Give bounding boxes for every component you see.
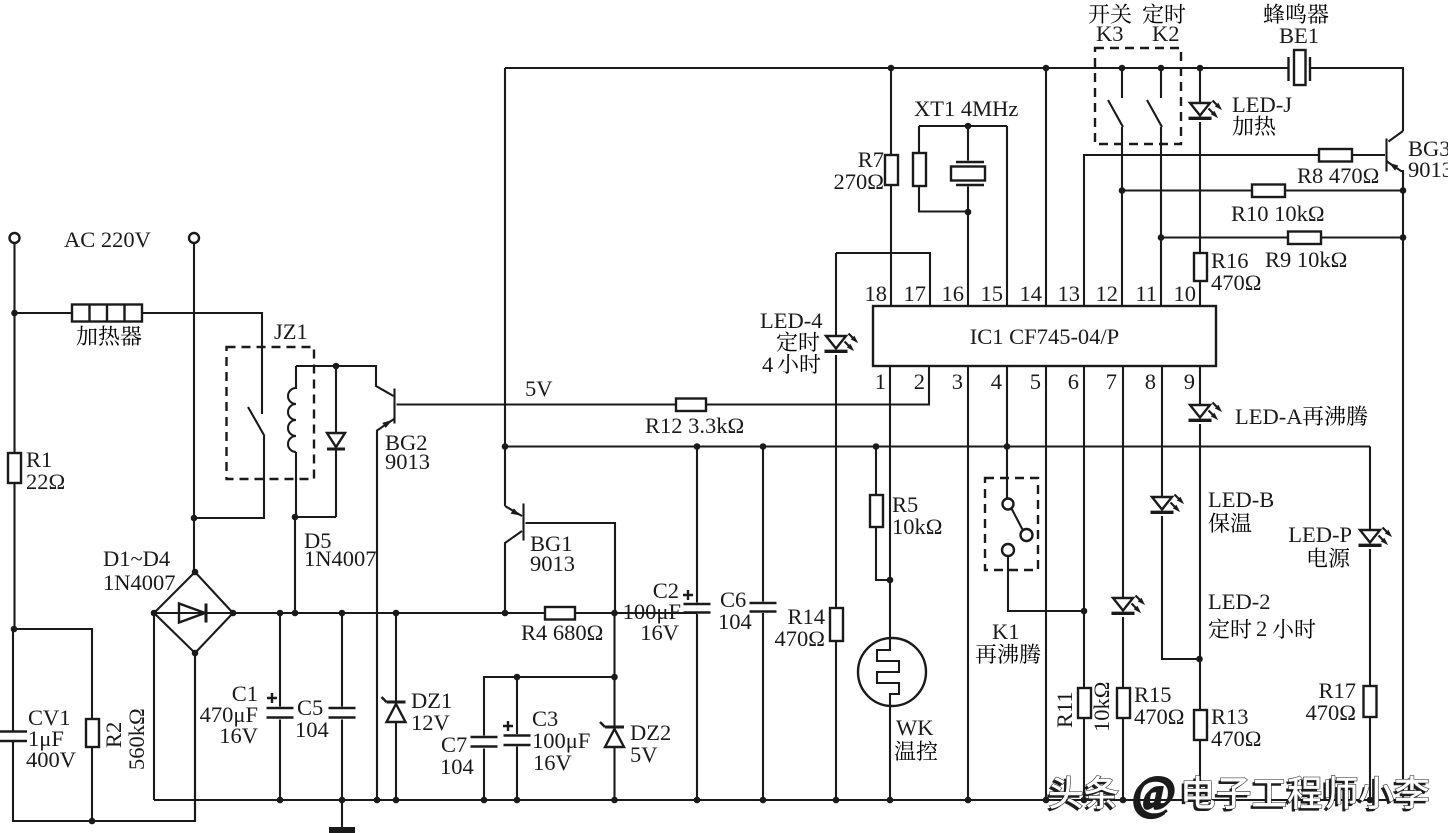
wire 5V feed vertical bbox=[504, 68, 506, 506]
svg-text:104: 104 bbox=[295, 717, 329, 742]
junction C3/C7 branch bbox=[611, 674, 618, 681]
wire AC1 down to R1 bbox=[13, 244, 15, 454]
svg-text:22Ω: 22Ω bbox=[26, 469, 65, 494]
wire R2 branch bbox=[14, 629, 92, 821]
svg-text:2: 2 bbox=[914, 369, 925, 394]
svg-text:8: 8 bbox=[1145, 369, 1156, 394]
junction ground 836 bbox=[833, 797, 840, 804]
capacitor C6 104 bbox=[762, 447, 764, 801]
wire top bus to LED-J bbox=[1199, 68, 1201, 306]
resistor R12 bbox=[676, 399, 706, 412]
svg-text:4: 4 bbox=[762, 352, 773, 377]
svg-text:K2: K2 bbox=[1152, 21, 1180, 46]
svg-text:LED-2: LED-2 bbox=[1208, 589, 1270, 614]
wire +V rail bbox=[233, 612, 697, 614]
junction heater tap bbox=[11, 310, 18, 317]
junction ground 484 bbox=[481, 797, 488, 804]
svg-text:R11: R11 bbox=[1052, 691, 1077, 728]
junction ground 377 bbox=[374, 797, 381, 804]
junction ground 968 bbox=[965, 797, 972, 804]
svg-text:470Ω: 470Ω bbox=[1134, 704, 1184, 729]
junction R10-BG3 emitter bbox=[1400, 187, 1407, 194]
switch K1 dashed outline bbox=[985, 478, 1038, 570]
junction R2 bottom bbox=[89, 818, 96, 825]
terminal AC input 2 bbox=[189, 233, 199, 243]
junction LED-J top bbox=[1197, 65, 1204, 72]
capacitor C1 470uF bbox=[279, 613, 281, 800]
svg-text:470Ω: 470Ω bbox=[1306, 700, 1356, 725]
relay JZ1 dashed outline bbox=[227, 347, 315, 479]
resistor R16 470R bbox=[1194, 253, 1207, 281]
wire IC pin8 down / LED-B bbox=[1162, 366, 1199, 659]
svg-text:9: 9 bbox=[1184, 369, 1195, 394]
wire bridge left to ground bus bbox=[153, 613, 155, 800]
svg-text:10: 10 bbox=[1174, 281, 1197, 306]
junction ground 614.5 bbox=[611, 797, 618, 804]
resistor R9 10k bbox=[1161, 236, 1403, 238]
junction BG1 base node bbox=[611, 610, 618, 617]
svg-text:16V: 16V bbox=[219, 723, 258, 748]
transistor BG1 bbox=[522, 504, 524, 541]
transistor BG3 bbox=[1385, 139, 1387, 172]
svg-text:13: 13 bbox=[1058, 281, 1081, 306]
watermark 头条@电子工程师小李 bbox=[1047, 778, 1116, 811]
svg-text:15: 15 bbox=[981, 281, 1004, 306]
junction bridge left bbox=[151, 610, 158, 617]
junction K2 top bbox=[1158, 65, 1165, 72]
switches K3 K2 dashed outline bbox=[1095, 48, 1181, 144]
junction ground 1123 bbox=[1120, 797, 1127, 804]
zener diode DZ2 5V bbox=[600, 722, 624, 747]
svg-text:7: 7 bbox=[1106, 369, 1117, 394]
capacitor C2 100uF bbox=[696, 447, 698, 801]
junction ground 280 bbox=[277, 797, 284, 804]
resistor R14 bbox=[835, 355, 837, 800]
crystal XT1 4MHz bbox=[919, 126, 1007, 306]
wire K1 bottom to pin6 node bbox=[1008, 556, 1084, 611]
wire top supply bus bbox=[505, 68, 1403, 131]
junction R9 tap bbox=[1158, 234, 1165, 241]
junction BG1 emitter / +V bbox=[502, 610, 509, 617]
junction K1-pin6 bbox=[1081, 608, 1088, 615]
svg-text:AC 220V: AC 220V bbox=[64, 227, 151, 252]
wire bridge bottom to AC return bbox=[194, 653, 196, 821]
wire C7 C3 branch bbox=[484, 677, 615, 800]
svg-text:R4 680Ω: R4 680Ω bbox=[521, 620, 603, 645]
junction R5-pin1 bbox=[887, 577, 894, 584]
resistor R17 bbox=[1364, 686, 1377, 717]
buzzer BE1 bbox=[1289, 57, 1311, 81]
wire coil top to BG2 collector bbox=[296, 366, 394, 396]
svg-text:11: 11 bbox=[1135, 281, 1157, 306]
wire IC pin9 down / LED-A / resistor R13 bbox=[1199, 366, 1201, 800]
thermostat WK bbox=[858, 638, 926, 706]
wire BG2 base / 5V node to R12 bbox=[397, 366, 930, 405]
junction coil-D5 top bbox=[333, 363, 340, 370]
junction coil-return bbox=[292, 610, 299, 617]
junction pin8-pin9 bbox=[1196, 656, 1203, 663]
junction crystal bottom bbox=[965, 209, 972, 216]
label 定时 K2 bbox=[1143, 4, 1186, 24]
wire IC pin7 down / LED-2 / resistor R15 bbox=[1122, 366, 1124, 800]
wire IC pin5 down bbox=[1045, 366, 1047, 800]
capacitor C7 104 bbox=[471, 737, 498, 747]
switch K3 / wire pin12 bbox=[1121, 68, 1123, 306]
junction ground 763 bbox=[760, 797, 767, 804]
wire pin17 to LED-4 bbox=[836, 253, 930, 306]
svg-text:9013: 9013 bbox=[530, 551, 575, 576]
junction C6 top bbox=[760, 443, 767, 450]
resistor R5 bbox=[876, 447, 890, 581]
junction ground 1084 bbox=[1081, 797, 1088, 804]
svg-text:R8 470Ω: R8 470Ω bbox=[1297, 163, 1379, 188]
junction C3 top bbox=[514, 674, 521, 681]
wire heater left lead bbox=[15, 312, 73, 314]
heater element 加热器 bbox=[72, 305, 142, 322]
diode D5 1N4007 bbox=[335, 366, 337, 517]
svg-text:9013: 9013 bbox=[1408, 157, 1448, 182]
wire 5V bus to LED-P bbox=[1369, 447, 1371, 801]
svg-text:2: 2 bbox=[1256, 616, 1267, 641]
svg-text:LED-B: LED-B bbox=[1208, 487, 1274, 512]
svg-text:10kΩ: 10kΩ bbox=[1089, 682, 1114, 732]
svg-text:LED-J: LED-J bbox=[1232, 92, 1292, 117]
svg-text:D1~D4: D1~D4 bbox=[103, 546, 170, 571]
resistor R10 10k bbox=[1122, 189, 1403, 191]
junction R7 top bbox=[888, 65, 895, 72]
svg-text:3: 3 bbox=[952, 369, 963, 394]
svg-text:R10 10kΩ: R10 10kΩ bbox=[1231, 201, 1325, 226]
svg-text:17: 17 bbox=[904, 281, 927, 306]
svg-text:5V: 5V bbox=[525, 376, 553, 401]
junction DZ1 top bbox=[393, 610, 400, 617]
junction ground 1046 bbox=[1043, 797, 1050, 804]
svg-text:400V: 400V bbox=[26, 747, 76, 772]
wire base node down bbox=[613, 613, 615, 800]
junction crystal top bbox=[965, 123, 972, 130]
terminal AC input 1 bbox=[10, 233, 20, 243]
LED-J bbox=[1189, 101, 1223, 119]
svg-text:10kΩ: 10kΩ bbox=[892, 514, 942, 539]
LED-4 bbox=[835, 253, 837, 336]
label 蜂鸣器 BE1 bbox=[1264, 3, 1329, 23]
svg-text:K3: K3 bbox=[1096, 21, 1124, 46]
svg-text:16V: 16V bbox=[533, 750, 572, 775]
svg-text:JZ1: JZ1 bbox=[274, 319, 308, 344]
svg-text:LED-A: LED-A bbox=[1235, 404, 1303, 429]
svg-text:104: 104 bbox=[440, 754, 474, 779]
junction pin14 top bbox=[1043, 65, 1050, 72]
transistor BG2 bbox=[393, 389, 395, 424]
junction bridge right bbox=[230, 610, 237, 617]
wire IC pin3 down bbox=[967, 366, 969, 800]
wire JZ1 switch to AC2 node bbox=[194, 436, 264, 518]
junction ground 1370 bbox=[1367, 797, 1374, 804]
junction 5V-BG1 bbox=[502, 443, 509, 450]
svg-text:16V: 16V bbox=[640, 620, 679, 645]
svg-text:9013: 9013 bbox=[385, 449, 430, 474]
junction C5 top bbox=[339, 610, 346, 617]
resistor R4 bbox=[545, 607, 575, 620]
svg-text:LED-P: LED-P bbox=[1288, 522, 1352, 547]
wire R1 to CV1 bbox=[13, 483, 15, 731]
junction ground 1200 bbox=[1197, 797, 1204, 804]
junction R10 tap bbox=[1119, 187, 1126, 194]
relay coil JZ1 bbox=[288, 366, 296, 517]
junction R2 tap bbox=[11, 626, 18, 633]
wire AC2 down to bridge bbox=[193, 244, 195, 572]
svg-text:270Ω: 270Ω bbox=[834, 169, 884, 194]
svg-text:IC1 CF745-04/P: IC1 CF745-04/P bbox=[970, 324, 1119, 349]
resistor R8 470R bbox=[1319, 149, 1352, 162]
wire 5V bus bbox=[505, 445, 1370, 447]
zener diode DZ1 12V bbox=[395, 613, 397, 800]
svg-text:16: 16 bbox=[942, 281, 965, 306]
junction bridge top bbox=[192, 569, 199, 576]
resistor R2 bbox=[86, 719, 99, 747]
resistor R7 / wire to pin18 bbox=[890, 68, 892, 306]
svg-text:470Ω: 470Ω bbox=[1211, 726, 1261, 751]
svg-text:12: 12 bbox=[1096, 281, 1119, 306]
svg-text:14: 14 bbox=[1020, 281, 1043, 306]
relay contact JZ1 blade bbox=[248, 407, 265, 436]
svg-text:470Ω: 470Ω bbox=[1211, 270, 1261, 295]
junction C2 top bbox=[694, 443, 701, 450]
wire ground bus bbox=[154, 799, 1403, 801]
svg-text:560kΩ: 560kΩ bbox=[124, 708, 149, 770]
wire pin14 up bbox=[1045, 68, 1047, 306]
wire pin13 to R8 bbox=[1084, 155, 1385, 306]
junction AC2-bridge node bbox=[191, 515, 198, 522]
svg-text:104: 104 bbox=[718, 609, 752, 634]
svg-text:R2: R2 bbox=[101, 722, 126, 748]
svg-text:R12 3.3kΩ: R12 3.3kΩ bbox=[645, 413, 744, 438]
svg-text:6: 6 bbox=[1068, 369, 1079, 394]
capacitor CV1 bbox=[0, 732, 27, 742]
svg-text:18: 18 bbox=[865, 281, 888, 306]
ground symbol bbox=[341, 800, 343, 828]
IC U1 CF745-04/P bbox=[873, 306, 1216, 366]
junction coil bottom bbox=[292, 514, 299, 521]
svg-text:XT1 4MHz: XT1 4MHz bbox=[914, 96, 1018, 121]
svg-text:470Ω: 470Ω bbox=[775, 626, 825, 651]
svg-text:1: 1 bbox=[875, 369, 886, 394]
LED-P bbox=[1359, 528, 1393, 546]
junction ground 342 bbox=[339, 797, 346, 804]
svg-text:1N4007: 1N4007 bbox=[304, 546, 377, 571]
svg-text:1N4007: 1N4007 bbox=[103, 570, 176, 595]
wire IC pin6 down / resistor R11 bbox=[1083, 366, 1085, 800]
wire CV1 bottom line bbox=[13, 653, 195, 821]
svg-text:BE1: BE1 bbox=[1279, 23, 1319, 48]
capacitor C5 104 bbox=[341, 613, 343, 800]
junction ground 890 bbox=[887, 797, 894, 804]
junction K3 top bbox=[1119, 65, 1126, 72]
label 开关 K3 bbox=[1089, 4, 1131, 24]
svg-text:5V: 5V bbox=[630, 742, 658, 767]
junction bridge bottom bbox=[192, 650, 199, 657]
junction K1 top bbox=[1004, 443, 1011, 450]
wire IC pin4 down bbox=[1006, 366, 1008, 499]
bridge rectifier D1-D4 bbox=[154, 572, 233, 653]
svg-text:R9 10kΩ: R9 10kΩ bbox=[1265, 247, 1347, 272]
svg-text:K1: K1 bbox=[992, 619, 1020, 644]
junction ground 517 bbox=[514, 797, 521, 804]
capacitor C3 100uF bbox=[516, 677, 518, 800]
label 加热器 bbox=[77, 326, 142, 346]
switch K1 bbox=[1003, 499, 1014, 510]
wire coil bottom bbox=[295, 517, 336, 613]
svg-text:LED-4: LED-4 bbox=[760, 308, 822, 333]
resistor R1 bbox=[8, 453, 21, 483]
junction R9 right bbox=[1400, 234, 1407, 241]
junction C1 top bbox=[277, 610, 284, 617]
svg-text:@: @ bbox=[1134, 766, 1176, 817]
wire IC pin1 down bbox=[889, 366, 891, 800]
svg-text:5: 5 bbox=[1030, 369, 1041, 394]
junction ground 396 bbox=[393, 797, 400, 804]
switch K2 / wire pin11 bbox=[1160, 68, 1162, 306]
junction ground 697 bbox=[694, 797, 701, 804]
svg-text:4: 4 bbox=[991, 369, 1002, 394]
wire heater right lead to JZ1 switch bbox=[142, 313, 262, 414]
svg-text:WK: WK bbox=[896, 715, 934, 740]
junction R5 top bbox=[873, 443, 880, 450]
